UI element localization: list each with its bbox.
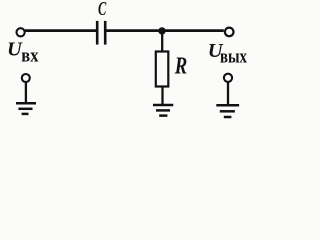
svg-text:R: R (174, 52, 187, 79)
svg-text:C: C (98, 0, 107, 20)
svg-text:вых: вых (220, 46, 247, 67)
svg-text:вх: вх (21, 45, 38, 66)
